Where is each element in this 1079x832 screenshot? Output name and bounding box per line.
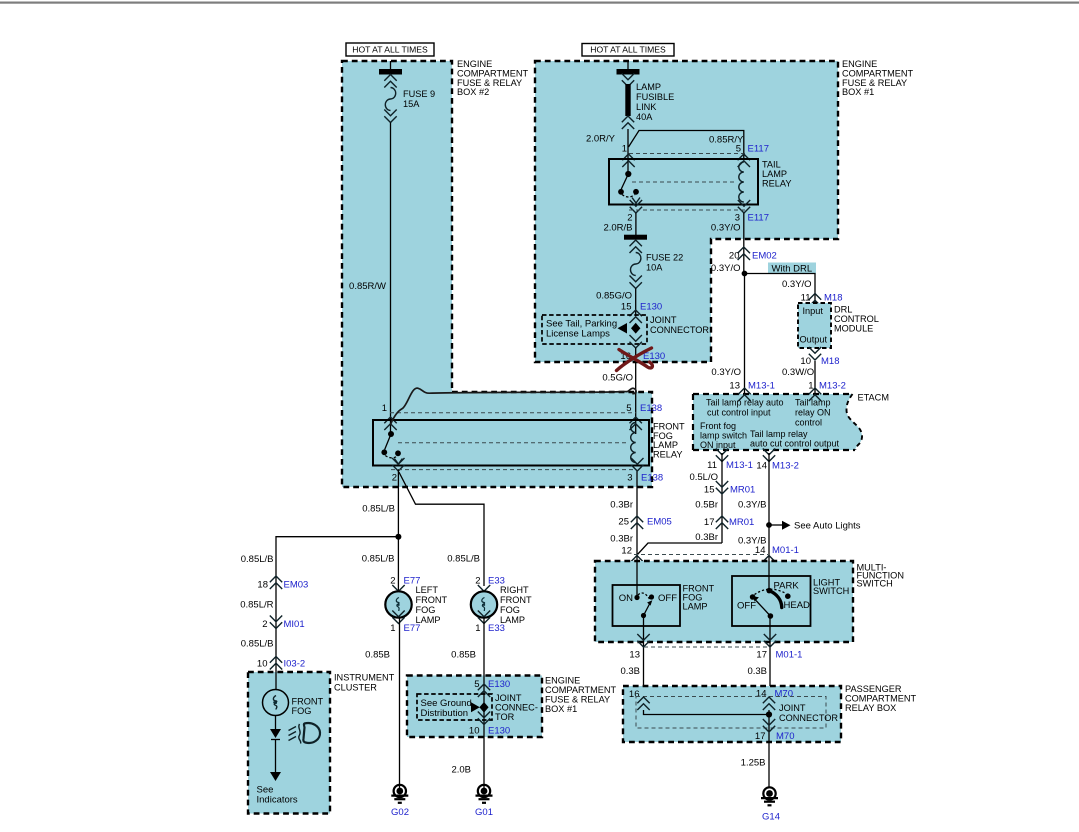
- svg-text:Output: Output: [800, 335, 828, 345]
- wire left lamp to ground (0.85B): [399, 617, 401, 788]
- wire jog MR01 to switch pin 12: [637, 543, 722, 555]
- left front fog lamp L1: [385, 591, 411, 617]
- svg-text:Tail lamp relay auto: Tail lamp relay auto: [706, 398, 784, 408]
- label HOT AT ALL TIMES (left): [346, 43, 434, 56]
- chevrons ETACM pin 14: [763, 449, 775, 462]
- chevrons EM03: [270, 576, 282, 589]
- svg-text:RIGHT: RIGHT: [500, 585, 529, 595]
- chevrons MFS pin 17: [764, 634, 776, 647]
- svg-text:11: 11: [707, 460, 717, 471]
- svg-text:12: 12: [621, 546, 632, 557]
- svg-text:lamp switch: lamp switch: [700, 431, 747, 441]
- svg-text:0.3Y/O: 0.3Y/O: [782, 279, 812, 290]
- svg-text:E117: E117: [748, 144, 769, 155]
- svg-text:LAMP: LAMP: [762, 169, 787, 179]
- svg-text:16: 16: [629, 689, 640, 700]
- label JOINT CONNECTOR: [650, 315, 709, 335]
- tail lamp relay switch: [618, 171, 640, 203]
- svg-text:M13-2: M13-2: [819, 381, 846, 392]
- svg-text:Tail lamp relay: Tail lamp relay: [750, 429, 808, 439]
- light switch S2 (box): [732, 576, 811, 626]
- svg-text:relay ON: relay ON: [795, 408, 831, 418]
- svg-text:13: 13: [629, 650, 640, 661]
- svg-text:0.5G/O: 0.5G/O: [602, 373, 633, 384]
- label FRONT FOG LAMP: [683, 584, 715, 612]
- note See Ground Distribution: [421, 698, 472, 719]
- svg-text:2: 2: [392, 473, 397, 484]
- svg-text:0.3Y/O: 0.3Y/O: [711, 223, 741, 234]
- label FUSE 22 10A: [646, 253, 683, 273]
- wire fuse 9 to front fog lamp relay pin 1 (0.85R/W): [390, 123, 392, 435]
- label FUSE 9 15A: [403, 89, 435, 109]
- svg-text:0.85B: 0.85B: [365, 650, 390, 661]
- svg-text:PARK: PARK: [774, 581, 800, 592]
- svg-text:40A: 40A: [636, 112, 653, 122]
- label DRL CONTROL MODULE: [834, 305, 879, 334]
- bus bar above fuse 22: [624, 235, 647, 240]
- svg-text:0.3Y/O: 0.3Y/O: [711, 263, 741, 274]
- connector chevrons above fuse 9: [384, 75, 396, 88]
- label ENGINE COMPARTMENT FUSE & RELAY BOX #2: [457, 59, 529, 97]
- svg-text:M13-2: M13-2: [772, 461, 799, 472]
- svg-text:FOG: FOG: [500, 605, 520, 615]
- label See Indicators: [257, 785, 298, 806]
- svg-text:FUSE 22: FUSE 22: [646, 253, 683, 263]
- svg-text:0.85L/B: 0.85L/B: [241, 639, 274, 650]
- front fog indicator lamp: [263, 690, 289, 716]
- svg-text:10: 10: [257, 659, 268, 670]
- wire light switch to pin 17: [769, 619, 771, 687]
- svg-text:0.85G/O: 0.85G/O: [596, 291, 632, 302]
- svg-text:LAMP: LAMP: [683, 602, 708, 612]
- wire branch to tail lamp relay pin 5 (0.85R/Y): [629, 131, 744, 160]
- svg-text:0.3Br: 0.3Br: [610, 500, 633, 511]
- ground G02: [391, 785, 408, 803]
- svg-text:MR01: MR01: [729, 517, 754, 528]
- label HOT AT ALL TIMES (right): [582, 44, 674, 57]
- passenger compartment relay box (cyan dashed): [623, 686, 841, 742]
- svg-text:EM03: EM03: [284, 580, 309, 591]
- svg-text:2.0B: 2.0B: [451, 765, 471, 776]
- light switch contacts and lever: [750, 588, 791, 619]
- multi-function switch (cyan dashed box): [595, 561, 853, 642]
- front fog lamp relay U3 (box): [373, 420, 649, 466]
- svg-text:TOR: TOR: [495, 712, 515, 722]
- node: junction dot lamp feed: [395, 534, 401, 540]
- fuse F9: [385, 88, 395, 111]
- chevrons into right fog lamp: [478, 585, 490, 598]
- wire branch to DRL control module (0.3Y/O): [745, 274, 816, 304]
- instrument cluster (cyan dashed box): [248, 672, 330, 814]
- wire branch left to instrument cluster: [276, 537, 398, 671]
- chevrons MR01 pin 15: [716, 481, 728, 494]
- svg-text:OFF: OFF: [658, 593, 677, 604]
- label MULTI-FUNCTION SWITCH: [857, 562, 904, 588]
- label PASSENGER COMPARTMENT RELAY BOX: [845, 684, 917, 713]
- svg-text:COMPARTMENT: COMPARTMENT: [845, 694, 917, 704]
- tail lamp relay coil: [739, 162, 744, 202]
- svg-text:BOX #1: BOX #1: [545, 704, 577, 714]
- svg-text:M18: M18: [821, 356, 839, 367]
- svg-text:JOINT: JOINT: [779, 703, 806, 713]
- ground G01: [476, 785, 493, 803]
- chevrons tail relay pin 2: [630, 200, 642, 213]
- chevrons tail relay pin 1: [622, 154, 634, 167]
- label RIGHT FRONT FOG LAMP: [500, 585, 532, 625]
- svg-text:17: 17: [756, 650, 767, 661]
- wire ETACM pin 11 to MR01 (0.5L/O): [721, 453, 723, 543]
- joint connector inner dashed frame: [636, 697, 826, 729]
- dashed connector row above front fog relay: [390, 412, 636, 414]
- power bus bar (fusible link): [617, 69, 640, 75]
- front fog relay switch: [381, 431, 402, 464]
- svg-text:17: 17: [704, 517, 715, 528]
- svg-text:M70: M70: [776, 731, 794, 742]
- svg-text:0.3Br: 0.3Br: [695, 532, 718, 543]
- svg-text:20: 20: [729, 251, 740, 262]
- svg-text:ON input: ON input: [700, 440, 736, 450]
- chevrons MR01 pin 17: [716, 516, 728, 529]
- svg-text:Input: Input: [803, 306, 824, 316]
- svg-text:0.85R/W: 0.85R/W: [349, 281, 386, 292]
- svg-text:0.85L/B: 0.85L/B: [447, 554, 480, 565]
- svg-text:CONNECTOR: CONNECTOR: [650, 325, 709, 335]
- lamp fusible link 40A (thick bar): [625, 84, 630, 116]
- svg-text:M01-1: M01-1: [776, 650, 803, 661]
- joint bus diamond: [631, 323, 640, 334]
- chevrons MFS pin 13: [637, 634, 649, 647]
- joint bus arrow left: [618, 323, 628, 334]
- svg-text:LINK: LINK: [636, 102, 657, 112]
- label tail lamp relay ON control: [795, 398, 831, 428]
- svg-text:control: control: [795, 418, 822, 428]
- chevrons ETACM pin 1: [809, 388, 821, 401]
- svg-text:2.0R/Y: 2.0R/Y: [586, 134, 616, 145]
- wire ETACM pin 14 to light switch (0.3Y/B): [768, 453, 770, 561]
- arrow base tick: [271, 739, 280, 741]
- chevrons M18 pin 11: [809, 294, 821, 307]
- connector chevrons below fuse 9: [384, 110, 396, 123]
- wire to see auto lights arrow: [769, 524, 782, 526]
- node: junction dot with DRL branch: [742, 271, 748, 277]
- note text See Tail, Parking License Lamps: [546, 319, 617, 340]
- DRL control module U2 (dashed box): [798, 303, 831, 348]
- svg-text:E130: E130: [488, 679, 510, 690]
- svg-text:JOINT: JOINT: [495, 693, 522, 703]
- chevrons into joint connector E130: [630, 310, 642, 323]
- svg-text:0.85L/B: 0.85L/B: [362, 554, 395, 565]
- wire into front fog indicator: [275, 671, 277, 690]
- wire hot feed to fuse 9: [390, 61, 392, 69]
- svg-text:15A: 15A: [403, 99, 420, 109]
- chevrons front fog relay pin 5: [630, 417, 642, 430]
- svg-text:0.85B: 0.85B: [451, 650, 476, 661]
- chevrons tail relay pin 3: [738, 200, 750, 213]
- svg-text:0.3B: 0.3B: [620, 666, 640, 677]
- wire fog switch to pin 13: [643, 618, 645, 686]
- svg-text:CLUSTER: CLUSTER: [334, 683, 377, 693]
- chevrons front fog relay pin 3: [631, 458, 643, 471]
- wire front fog relay pin 2 down (0.85L/B): [397, 470, 399, 593]
- chevrons M70 pin 17: [763, 719, 775, 732]
- node: junction see auto lights: [766, 522, 772, 528]
- svg-text:17: 17: [755, 731, 766, 742]
- svg-text:G01: G01: [475, 807, 493, 818]
- engine compartment fuse & relay box #1 (cyan dashed L-shape): [535, 61, 838, 362]
- wire indicator to arrow: [275, 716, 277, 730]
- svg-text:3: 3: [627, 473, 632, 484]
- svg-text:E117: E117: [748, 213, 769, 224]
- svg-text:SWITCH: SWITCH: [813, 586, 849, 596]
- svg-text:EM05: EM05: [647, 517, 672, 528]
- svg-text:1: 1: [382, 403, 387, 414]
- svg-text:EM02: EM02: [752, 251, 777, 262]
- svg-text:HEAD: HEAD: [784, 600, 811, 611]
- svg-text:FUSE & RELAY: FUSE & RELAY: [545, 695, 610, 705]
- svg-text:MR01: MR01: [730, 485, 755, 496]
- svg-text:2.0R/B: 2.0R/B: [603, 223, 632, 234]
- svg-text:5: 5: [736, 144, 741, 155]
- svg-text:MODULE: MODULE: [834, 324, 873, 334]
- svg-text:FUSIBLE: FUSIBLE: [636, 92, 674, 102]
- joint connector dashed frame with See Tail note: [542, 315, 647, 344]
- chevrons into ground joint connector: [478, 684, 490, 697]
- chevrons out of right fog lamp: [478, 611, 490, 624]
- svg-text:Tail lamp: Tail lamp: [795, 398, 831, 408]
- wire right lamp to joint connector (0.85B): [483, 617, 485, 788]
- connector chevrons below bus bar: [622, 74, 634, 87]
- wire DRL output to ETACM (0.3W/O): [814, 361, 816, 394]
- svg-text:1: 1: [622, 144, 627, 155]
- chevrons I03-2: [270, 657, 282, 670]
- svg-text:10A: 10A: [646, 263, 663, 273]
- svg-text:RELAY: RELAY: [653, 449, 682, 459]
- front fog relay internal link (dashed): [398, 442, 628, 444]
- dashed connector row below MFS: [644, 646, 769, 648]
- svg-text:cut control input: cut control input: [707, 408, 771, 418]
- connector chevrons below fusible link: [622, 116, 634, 129]
- svg-text:2: 2: [475, 576, 480, 587]
- svg-text:FUSE 9: FUSE 9: [403, 89, 435, 99]
- dashed connector row above multi-function switch: [634, 554, 768, 556]
- chevrons ETACM pin 13: [738, 388, 750, 401]
- svg-text:ON: ON: [619, 593, 633, 604]
- svg-text:0.5L/O: 0.5L/O: [689, 472, 718, 483]
- svg-text:INSTRUMENT: INSTRUMENT: [334, 673, 395, 683]
- svg-text:G14: G14: [762, 812, 780, 823]
- chevrons MFS pin 14: [763, 556, 775, 569]
- front fog lamp switch S1 (box): [613, 585, 681, 626]
- svg-text:1: 1: [475, 623, 480, 634]
- engine compartment fuse & relay box #1 lower (cyan dashed): [407, 676, 542, 738]
- svg-text:DRL: DRL: [834, 305, 852, 315]
- dashed connector row below front fog relay: [391, 469, 637, 471]
- svg-text:10: 10: [800, 356, 811, 367]
- svg-text:E138: E138: [640, 403, 662, 414]
- svg-text:License Lamps: License Lamps: [546, 329, 610, 340]
- chevrons M70 pin 14: [763, 697, 775, 710]
- svg-text:14: 14: [756, 461, 767, 472]
- wire tail relay pin 3 down to EM02 (0.3Y/O): [743, 213, 745, 274]
- svg-text:0.3W/O: 0.3W/O: [782, 367, 814, 378]
- engine compartment fuse & relay box #2 (cyan dashed L-shape): [342, 61, 652, 487]
- chevrons out of joint connector E130: [630, 335, 642, 348]
- joint bus diamond: [479, 702, 488, 713]
- label TAIL LAMP RELAY: [762, 160, 791, 189]
- label LAMP FUSIBLE LINK 40A: [636, 82, 674, 122]
- fuse F22: [631, 253, 641, 276]
- svg-text:CONNECTOR: CONNECTOR: [779, 713, 838, 723]
- chevrons into left fog lamp: [392, 585, 404, 598]
- svg-text:0.3Y/O: 0.3Y/O: [711, 367, 741, 378]
- chevrons tail relay pin 5: [738, 154, 750, 167]
- svg-text:E130: E130: [643, 351, 665, 362]
- chevrons M18 pin 10: [809, 347, 821, 360]
- svg-text:E77: E77: [404, 623, 421, 634]
- wire hot feed to fusible link: [627, 61, 629, 69]
- svg-text:Front fog: Front fog: [700, 421, 736, 431]
- front fog lamp icon: [289, 723, 321, 743]
- wire into fog switch: [636, 561, 638, 598]
- chevrons out of ground joint connector: [478, 712, 490, 725]
- dashed connector row below tail lamp relay: [629, 209, 745, 211]
- chevrons out of left fog lamp: [392, 611, 404, 624]
- svg-text:14: 14: [756, 689, 767, 700]
- svg-text:FOG: FOG: [416, 605, 436, 615]
- chevrons above fuse 22: [630, 240, 642, 253]
- wire through joint connector: [768, 710, 770, 742]
- svg-text:18: 18: [257, 580, 268, 591]
- node: joint connector junction: [766, 711, 772, 717]
- fog switch contacts and lever: [634, 593, 654, 618]
- svg-text:15: 15: [621, 302, 632, 313]
- svg-text:PASSENGER: PASSENGER: [845, 684, 902, 694]
- right front fog lamp L2: [471, 591, 497, 617]
- chevrons M70 pin 16: [637, 697, 649, 710]
- label JOINT CONNECTOR: [779, 703, 838, 723]
- svg-text:SWITCH: SWITCH: [857, 579, 893, 589]
- label INSTRUMENT CLUSTER: [334, 673, 395, 693]
- chevrons MFS pin 12: [631, 556, 643, 569]
- wire to ground G14 (1.25B): [768, 742, 770, 788]
- svg-text:M18: M18: [824, 293, 842, 304]
- svg-text:auto cut control output: auto cut control output: [750, 439, 840, 449]
- label JOINT CONNEC-TOR: [495, 693, 538, 722]
- svg-text:0.3Y/B: 0.3Y/B: [738, 500, 767, 511]
- wire to second arrow: [275, 740, 277, 773]
- svg-text:FRONT: FRONT: [416, 595, 448, 605]
- wire into light switch: [768, 561, 770, 591]
- wire fusible link to tail lamp relay pin 1 (2.0R/Y): [627, 129, 629, 174]
- svg-text:0.5Br: 0.5Br: [695, 500, 718, 511]
- svg-text:HOT AT ALL TIMES: HOT AT ALL TIMES: [590, 45, 666, 55]
- svg-text:OFF: OFF: [737, 601, 756, 612]
- svg-text:TAIL: TAIL: [762, 160, 781, 170]
- annotation: dark red X mark: [617, 348, 653, 371]
- label tail lamp relay auto cut control output: [750, 429, 840, 449]
- svg-text:RELAY: RELAY: [762, 179, 791, 189]
- svg-text:13: 13: [729, 381, 740, 392]
- svg-text:M13-1: M13-1: [748, 381, 775, 392]
- svg-text:0.3Br: 0.3Br: [610, 534, 633, 545]
- arrow down (see indicators): [270, 772, 281, 781]
- label LEFT FRONT FOG LAMP: [416, 585, 448, 625]
- svg-text:1.25B: 1.25B: [741, 758, 766, 769]
- svg-text:FRONT: FRONT: [292, 697, 324, 707]
- arrow down (indicator path): [270, 729, 281, 738]
- svg-text:RELAY BOX: RELAY BOX: [845, 703, 896, 713]
- svg-text:COMPARTMENT: COMPARTMENT: [545, 685, 617, 695]
- label front fog lamp switch ON input: [700, 421, 747, 450]
- svg-text:15: 15: [704, 485, 715, 496]
- wire tail relay pin 2 to fuse 22: [635, 213, 637, 235]
- svg-text:11: 11: [801, 293, 811, 304]
- wire front fog relay pin 3 to switch (0.3Br): [636, 471, 638, 561]
- svg-text:0.85L/B: 0.85L/B: [241, 554, 274, 565]
- svg-text:I03-2: I03-2: [284, 659, 306, 670]
- svg-text:LEFT: LEFT: [416, 585, 439, 595]
- svg-text:FOG: FOG: [292, 706, 312, 716]
- svg-text:E33: E33: [488, 623, 505, 634]
- label FRONT FOG: [292, 697, 324, 717]
- svg-text:FRONT: FRONT: [500, 595, 532, 605]
- label ENGINE COMPARTMENT FUSE & RELAY BOX #1: [545, 676, 617, 715]
- wire joint connector to front fog relay pin 5 (0.5G/O): [635, 348, 637, 434]
- svg-text:CONNEC-: CONNEC-: [495, 703, 538, 713]
- chevrons front fog relay pin 1: [384, 417, 396, 430]
- dashed connector row above tail lamp relay: [629, 153, 745, 155]
- svg-text:ENGINE: ENGINE: [545, 676, 580, 686]
- label tail lamp relay auto cut control input: [706, 398, 784, 418]
- chevrons MI01: [270, 616, 282, 629]
- chevrons ETACM pin 11: [716, 449, 728, 462]
- wire EM02 down to ETACM (0.3Y/O): [744, 274, 746, 395]
- arrow see auto lights: [782, 521, 791, 530]
- joint bus arrow right: [471, 702, 480, 712]
- svg-text:10: 10: [469, 726, 480, 737]
- wire fuse 22 to joint connector E130 (0.85G/O): [635, 289, 637, 317]
- svg-text:2: 2: [262, 619, 267, 630]
- svg-text:JOINT: JOINT: [650, 315, 677, 325]
- chevrons EM02: [738, 247, 750, 260]
- chevrons EM05: [631, 516, 643, 529]
- chevrons front fog relay pin 2: [392, 458, 404, 471]
- svg-text:E130: E130: [488, 726, 510, 737]
- svg-text:LAMP: LAMP: [636, 82, 661, 92]
- power bus bar (fuse 9): [379, 69, 402, 75]
- svg-text:M01-1: M01-1: [772, 545, 799, 556]
- svg-text:M13-1: M13-1: [726, 460, 753, 471]
- wire joint bus pin16 to pin14: [644, 710, 770, 715]
- tail lamp relay U1 (box): [609, 159, 758, 205]
- svg-text:0.3B: 0.3B: [747, 666, 767, 677]
- tail lamp relay internal link (dashed): [632, 181, 737, 183]
- svg-text:HOT AT ALL TIMES: HOT AT ALL TIMES: [352, 45, 428, 55]
- ground G14: [761, 787, 778, 805]
- svg-text:1: 1: [390, 623, 395, 634]
- svg-text:Indicators: Indicators: [257, 795, 298, 806]
- svg-text:MI01: MI01: [284, 619, 305, 630]
- svg-text:See Auto Lights: See Auto Lights: [794, 521, 861, 532]
- chevrons below fuse 22: [630, 276, 642, 289]
- note With DRL (highlight): [768, 263, 816, 275]
- label LIGHT SWITCH: [813, 578, 849, 597]
- svg-text:0.85L/R: 0.85L/R: [240, 600, 273, 611]
- svg-text:E138: E138: [641, 473, 663, 484]
- svg-text:BOX #1: BOX #1: [842, 87, 874, 97]
- top border line: [0, 2, 1079, 4]
- ground joint connector dashed frame: [417, 694, 492, 720]
